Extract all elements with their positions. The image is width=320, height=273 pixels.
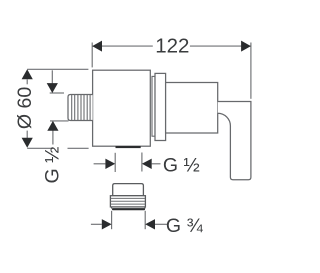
- threaded nipple G1/2 inlet: [68, 95, 93, 121]
- flange ring: [155, 73, 166, 140]
- leader nipple top: [50, 92, 64, 94]
- arrow tail stub left: [94, 163, 106, 165]
- arrowhead Ø60 up: [22, 69, 33, 79]
- arrowhead stub left: [105, 159, 115, 169]
- adapter knob: [113, 184, 144, 196]
- svg-text:G ½: G ½: [41, 147, 63, 184]
- svg-text:122: 122: [155, 34, 189, 57]
- arrowhead nipple down: [47, 83, 58, 93]
- extension line stub left: [114, 153, 116, 172]
- arrowhead adapter left: [102, 219, 112, 229]
- adapter ribbed band: [110, 196, 145, 207]
- dimension line Ø60: [26, 79, 28, 84]
- band groove lines: [111, 198, 145, 204]
- svg-text:Ø 60: Ø 60: [14, 87, 36, 129]
- washer ring: [152, 76, 155, 136]
- arrowhead nipple up: [47, 121, 58, 131]
- arrowhead 122 left: [92, 41, 102, 52]
- extension line left (122): [91, 43, 93, 68]
- svg-text:G ¾: G ¾: [166, 215, 204, 237]
- arrow tail upper: [51, 70, 53, 83]
- adapter foot thick bottom edge: [112, 208, 145, 210]
- dimension line 122: [92, 45, 153, 47]
- dimension G1/2 bottom: [94, 153, 161, 173]
- lever handle: [218, 102, 251, 180]
- valve body: [93, 70, 151, 146]
- dimension Ø60 left: [27, 69, 88, 148]
- arrowhead Ø60 down: [22, 138, 33, 148]
- arrow tail adapter right: [155, 223, 167, 225]
- dimension 122 top: [92, 43, 251, 99]
- leader top Ø60: [27, 68, 88, 70]
- cartridge housing: [166, 83, 218, 134]
- leader bottom Ø60: [27, 147, 53, 149]
- adapter foot sides: [111, 207, 113, 209]
- dimension G1/2 left (nipple): [50, 70, 69, 144]
- leader nipple bottom: [50, 120, 69, 122]
- G1/2 outlet stub (bottom of body): [116, 146, 141, 148]
- nipple thread lines: [72, 95, 90, 120]
- svg-text:G ½: G ½: [163, 155, 200, 177]
- dimension G3/4: [91, 211, 167, 229]
- arrow tail lower: [52, 131, 54, 145]
- arrow tail adapter left: [91, 223, 102, 225]
- arrowhead adapter right: [145, 219, 155, 229]
- extension line adapter left: [111, 211, 113, 229]
- arrow tail stub right: [152, 163, 161, 165]
- arrowhead stub right: [142, 159, 152, 169]
- extension line adapter right: [144, 211, 146, 229]
- arrowhead 122 right: [241, 41, 251, 52]
- extension line stub right: [141, 153, 143, 172]
- extension line right (122): [250, 43, 252, 99]
